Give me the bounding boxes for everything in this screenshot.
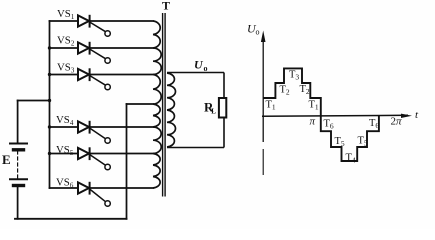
svg-text:o: o [256, 28, 260, 37]
svg-text:o: o [204, 64, 208, 73]
svg-text:π: π [310, 116, 316, 128]
svg-text:2π: 2π [391, 116, 403, 128]
svg-text:U: U [194, 58, 204, 72]
svg-text:E: E [2, 152, 11, 167]
svg-text:T: T [162, 0, 170, 13]
svg-text:L: L [211, 108, 216, 116]
